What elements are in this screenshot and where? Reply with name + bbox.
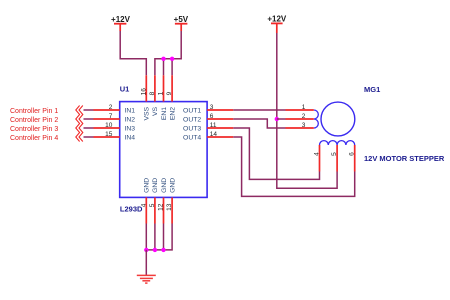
input terminal zigzags: [76, 106, 83, 142]
svg-text:4: 4: [140, 203, 147, 207]
junction at EN2: [170, 57, 174, 61]
svg-text:Controller Pin 3: Controller Pin 3: [10, 126, 58, 133]
svg-text:OUT4: OUT4: [183, 134, 201, 141]
svg-text:2: 2: [109, 104, 113, 111]
svg-text:7: 7: [109, 113, 113, 120]
wire bus to ground symbol: [145, 250, 147, 275]
power +12V (right): [267, 15, 287, 33]
svg-text:GND: GND: [161, 178, 168, 193]
wire OUT3 to motor pin4: [233, 128, 319, 179]
motor pin 1: [286, 104, 314, 111]
wire GND pin13 to bus: [146, 224, 172, 250]
svg-text:IN4: IN4: [125, 134, 136, 141]
wire to IN3: [84, 127, 94, 129]
svg-text:OUT3: OUT3: [183, 125, 201, 132]
wire to IN2: [84, 118, 94, 120]
svg-text:12: 12: [158, 203, 165, 211]
svg-text:12V MOTOR STEPPER: 12V MOTOR STEPPER: [364, 154, 445, 163]
wire OUT1 to motor pin1: [233, 109, 285, 111]
svg-text:OUT1: OUT1: [183, 107, 201, 114]
wire to IN4: [84, 136, 94, 138]
pin 2 (IN1): [94, 104, 136, 115]
ground: [137, 275, 156, 283]
wire EN1 drop: [163, 59, 165, 76]
svg-text:OUT2: OUT2: [183, 116, 201, 123]
pin 3 (OUT1): [183, 104, 233, 115]
svg-text:3: 3: [210, 104, 214, 111]
wire junction to motor pin2: [277, 118, 286, 120]
svg-text:IN3: IN3: [125, 125, 136, 132]
svg-text:5: 5: [149, 203, 156, 207]
motor coil B (bottom, pins 4-6): [320, 141, 355, 145]
svg-text:+12V: +12V: [111, 15, 131, 24]
power +5V: [174, 15, 189, 31]
pin 6 (OUT2): [183, 113, 233, 124]
svg-text:U1: U1: [120, 85, 130, 94]
motor pin 4: [313, 145, 320, 172]
motor pin 6: [349, 145, 356, 172]
svg-text:+5V: +5V: [174, 15, 189, 24]
svg-text:GND: GND: [152, 178, 159, 193]
svg-text:MG1: MG1: [364, 85, 380, 94]
svg-text:13: 13: [166, 203, 173, 211]
pin 13 (GND, bottom): [166, 178, 176, 224]
IC U1 L293D body: [120, 85, 207, 214]
junction +12V / motor pin2: [275, 117, 279, 121]
wire +12V to VSS pin: [120, 31, 146, 75]
pin 5 (GND, bottom): [149, 178, 159, 224]
motor pin 2: [286, 113, 314, 120]
svg-text:2: 2: [302, 113, 306, 120]
motor coil A (left, pins 1-3): [314, 110, 319, 128]
svg-text:5: 5: [331, 152, 338, 156]
junction at EN1: [161, 57, 165, 61]
svg-text:3: 3: [302, 122, 306, 129]
svg-text:Controller Pin 1: Controller Pin 1: [10, 108, 58, 115]
svg-text:1: 1: [158, 91, 165, 95]
svg-text:10: 10: [105, 122, 113, 129]
pin 7 (IN2): [94, 113, 136, 124]
wire EN2 drop: [171, 59, 173, 76]
pin 16 (VSS, top): [140, 75, 150, 120]
svg-text:6: 6: [210, 113, 214, 120]
junction GND 1: [144, 248, 148, 252]
svg-text:IN1: IN1: [125, 107, 136, 114]
pin 10 (IN3): [94, 122, 136, 133]
power +12V (left): [111, 15, 131, 31]
svg-text:15: 15: [105, 131, 113, 138]
wire GND pin4 to bus: [145, 224, 147, 250]
pin 9 (EN2, top): [166, 75, 176, 120]
wire OUT2 to motor pin3 (jog): [233, 119, 285, 128]
pin 12 (GND, bottom): [158, 178, 168, 224]
wire GND pin12 to bus: [163, 224, 165, 250]
svg-text:6: 6: [349, 152, 356, 156]
svg-text:EN1: EN1: [161, 107, 168, 120]
motor MG1 circle: [321, 102, 355, 136]
wire +5V to VS pin: [155, 31, 181, 75]
pin 8 (VS, top): [149, 75, 159, 116]
svg-text:EN2: EN2: [169, 107, 176, 120]
junction GND 2: [153, 248, 157, 252]
junction GND 3: [161, 248, 165, 252]
svg-text:+12V: +12V: [267, 15, 287, 24]
pin 14 (OUT4): [183, 131, 233, 142]
svg-text:11: 11: [210, 122, 217, 129]
wire to IN1: [84, 109, 94, 111]
svg-text:14: 14: [210, 131, 218, 138]
svg-text:GND: GND: [169, 178, 176, 193]
pin 1 (EN1, top): [158, 75, 168, 120]
wire OUT4 to motor pin6: [233, 137, 354, 196]
svg-text:9: 9: [166, 91, 173, 95]
svg-text:8: 8: [149, 91, 156, 95]
svg-text:Controller Pin 4: Controller Pin 4: [10, 135, 58, 142]
pin 4 (GND, bottom): [140, 178, 150, 224]
pin 11 (OUT3): [183, 122, 233, 133]
svg-text:VS: VS: [152, 106, 159, 116]
motor pin 3: [286, 122, 314, 129]
svg-text:VSS: VSS: [144, 106, 151, 120]
svg-text:Controller Pin 2: Controller Pin 2: [10, 117, 58, 124]
motor pin 5: [331, 145, 338, 172]
svg-text:1: 1: [302, 104, 306, 111]
svg-text:4: 4: [313, 152, 320, 156]
pin 15 (IN4): [94, 131, 136, 142]
wire +12V to motor pin5: [277, 33, 337, 188]
svg-text:16: 16: [140, 88, 147, 96]
svg-text:GND: GND: [144, 178, 151, 193]
wire GND pin5 to bus: [154, 224, 156, 250]
svg-text:IN2: IN2: [125, 116, 136, 123]
